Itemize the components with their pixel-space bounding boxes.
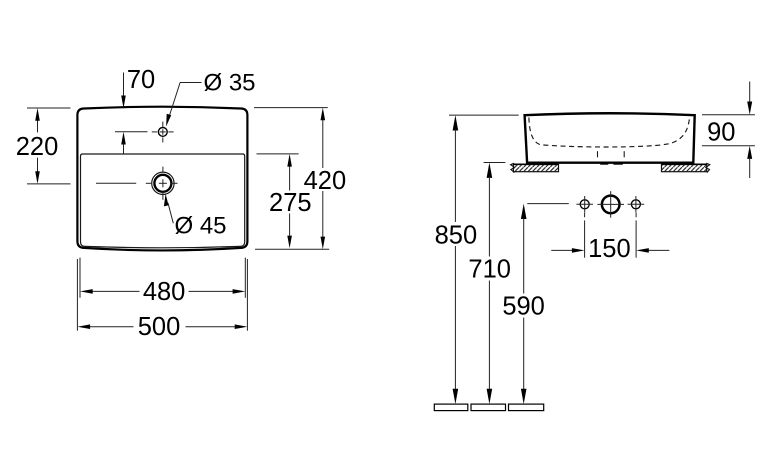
floor mark middle [471, 404, 506, 411]
dimension 500 (outer width) [77, 259, 247, 341]
fixing hole right (front view) [631, 200, 640, 209]
svg-text:70: 70 [127, 66, 155, 94]
floor mark left [434, 404, 468, 411]
drain hole inner circle [154, 175, 171, 192]
svg-text:500: 500 [138, 313, 181, 341]
svg-text:220: 220 [16, 133, 59, 161]
svg-text:480: 480 [143, 278, 186, 306]
svg-text:850: 850 [435, 221, 478, 249]
svg-text:590: 590 [502, 292, 545, 320]
countertop right hatched section [662, 163, 710, 172]
faucet hole circle [158, 127, 167, 136]
svg-text:275: 275 [269, 189, 312, 217]
faucet hole centerlines [152, 122, 174, 143]
dimension 590 (tap hole height above floor) [502, 204, 568, 405]
drain hole centerlines [96, 167, 178, 200]
label Ø35 with leader [166, 70, 255, 127]
svg-text:Ø 45: Ø 45 [175, 213, 227, 240]
basin inner bowl rim (top view) [81, 154, 245, 248]
dimension 70 (faucet hole offset) [115, 66, 155, 153]
dimension 420 (outer depth) [254, 108, 346, 250]
label Ø45 with leader [164, 194, 227, 240]
basin outline (front view) [525, 113, 695, 162]
dimension 275 (bowl depth) [257, 154, 312, 248]
svg-text:150: 150 [588, 235, 631, 263]
drain outlet dashes under basin [600, 163, 608, 165]
tap hole center (front view) [602, 196, 620, 214]
svg-text:90: 90 [707, 119, 735, 147]
drain recess dashed verticals [597, 151, 599, 157]
countertop left hatched section [511, 163, 559, 172]
dimension 480 (inner width) [80, 258, 245, 306]
dimension 710 (counter height above floor) [468, 163, 511, 405]
basin outer rim (top view) [77, 107, 247, 251]
dimension 220 (drain offset from top) [16, 108, 71, 184]
svg-text:Ø 35: Ø 35 [204, 70, 256, 97]
inner bowl dashed profile [529, 118, 690, 148]
dimension 150 (hole spacing) [551, 213, 669, 263]
floor mark right [509, 404, 544, 411]
dimension 850 (rim height above floor) [435, 115, 519, 404]
drain hole outer circle [152, 172, 174, 194]
svg-text:710: 710 [468, 256, 511, 284]
fixing hole left (front view) [580, 200, 589, 209]
dimension 90 (rim height) [702, 82, 755, 179]
